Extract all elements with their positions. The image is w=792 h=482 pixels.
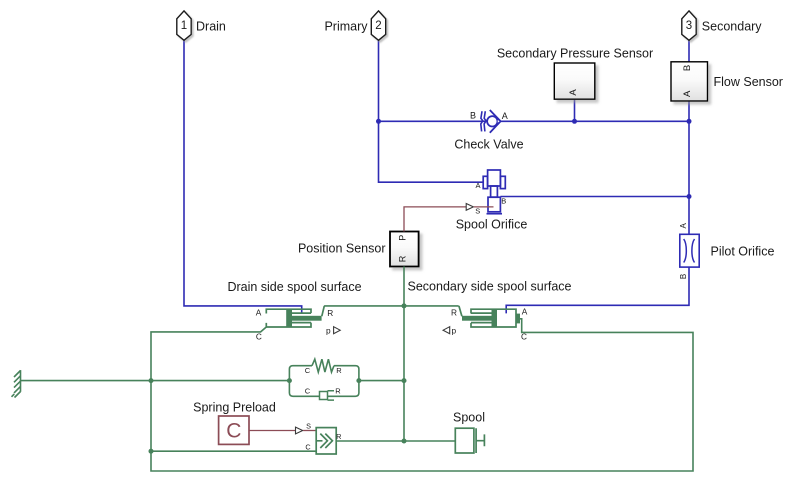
node: Primary branch junction (376, 119, 381, 124)
wire: ground line (green) (21, 380, 290, 382)
svg-text:S: S (475, 207, 480, 216)
secondary cylinder rod link to R (459, 306, 462, 316)
svg-text:Spring Preload: Spring Preload (193, 400, 276, 414)
svg-text:C: C (305, 366, 311, 375)
svg-text:Position Sensor: Position Sensor (298, 241, 386, 255)
block: Pilot Orifice (680, 234, 699, 267)
node: spring-damper right node (356, 378, 361, 383)
svg-text:Secondary: Secondary (702, 19, 763, 33)
wire: flow sensor down to pilot orifice (blue) (688, 101, 690, 234)
wire: R line between cylinders (green) (324, 305, 459, 307)
svg-text:p: p (326, 326, 331, 336)
wire: position sensor P signal (dark red) (404, 207, 466, 232)
wire: big C loop drain cylinder to secondary cylinder (green) (151, 319, 693, 471)
drain cylinder rod link to R (322, 306, 325, 316)
node: spool mass R junction (402, 439, 407, 444)
wire: spring preload signal (dark red) (249, 430, 295, 432)
svg-text:Check Valve: Check Valve (454, 138, 523, 152)
svg-text:C: C (305, 443, 310, 452)
svg-text:R: R (397, 255, 407, 262)
node: spring-damper left node (287, 378, 292, 383)
svg-text:C: C (305, 387, 311, 396)
svg-text:Spool: Spool (453, 411, 485, 425)
wire: PS stub into S port (474, 206, 494, 208)
secondary cylinder A port nub (516, 314, 520, 324)
damper symbol (320, 392, 328, 400)
node: ground line junction left (149, 378, 154, 383)
secondary cylinder p arrow (443, 327, 450, 334)
wire: force source R to spool mass (green) (336, 440, 455, 442)
svg-text:A: A (568, 89, 579, 96)
wire: Primary line (blue) port2 down to Spool Orifice A (379, 40, 484, 182)
block: Position Sensor (390, 232, 419, 267)
ground reference symbol (12, 370, 21, 397)
svg-text:R: R (327, 308, 333, 318)
svg-text:Drain: Drain (196, 19, 226, 33)
svg-text:3: 3 (686, 20, 692, 32)
secondary cylinder piston (492, 309, 498, 327)
drain cylinder piston (286, 309, 292, 327)
wire: force source C line (green) (151, 450, 316, 452)
svg-text:Drain side spool surface: Drain side spool surface (227, 280, 361, 294)
wire: center vertical from position sensor R (green) (403, 267, 405, 442)
wire: check valve line (blue) (379, 120, 690, 122)
block: force source (spring preload force) (316, 428, 336, 454)
block: Spring Preload constant (219, 416, 249, 444)
drain cylinder rod (292, 316, 322, 321)
svg-text:Spool Orifice: Spool Orifice (456, 217, 528, 231)
wire: port3 to flow sensor (blue) (688, 40, 690, 62)
block: Secondary Pressure Sensor (554, 63, 595, 99)
spring-damper assembly (289, 359, 359, 396)
svg-text:Secondary Pressure Sensor: Secondary Pressure Sensor (497, 46, 653, 60)
port 3 Secondary hexagon (682, 11, 696, 40)
port 2 Primary hexagon (371, 11, 385, 40)
node: R-line junction at position sensor (402, 303, 407, 308)
svg-text:C: C (226, 420, 241, 443)
spool orifice symbol (483, 170, 505, 214)
node: Secondary line junction at check valve (687, 119, 692, 124)
svg-text:A: A (475, 181, 480, 190)
svg-text:R: R (335, 387, 341, 396)
svg-text:A: A (256, 308, 262, 318)
svg-text:Secondary side spool surface: Secondary side spool surface (408, 279, 572, 293)
wire: Drain line (blue) port1 to drain cylinder A (184, 40, 302, 313)
PS arrow into force source S (296, 427, 303, 434)
wire: pressure sensor drop (blue) (574, 99, 576, 121)
svg-text:A: A (679, 222, 688, 228)
block: Flow Sensor (671, 62, 708, 101)
svg-text:R: R (451, 308, 457, 318)
svg-text:p: p (451, 326, 456, 336)
svg-text:S: S (306, 421, 311, 430)
svg-text:B: B (501, 197, 506, 206)
wire: PS stub into force source (303, 430, 316, 432)
block: Spool mass (455, 428, 474, 453)
svg-text:R: R (336, 366, 342, 375)
node: Secondary line junction at spool orifice B (687, 194, 692, 199)
svg-text:A: A (522, 307, 528, 317)
svg-text:Primary: Primary (324, 19, 368, 33)
svg-text:C: C (256, 331, 262, 341)
port 1 Drain hexagon (177, 11, 191, 40)
svg-text:P: P (397, 235, 407, 241)
svg-text:B: B (679, 274, 688, 279)
wire: spring loop to center vertical (green) (359, 380, 404, 382)
secondary cylinder rod (462, 316, 492, 321)
svg-text:B: B (682, 65, 693, 71)
svg-text:C: C (521, 331, 527, 341)
secondary side spool surface cylinder (471, 309, 516, 327)
node: pressure sensor tap junction (572, 119, 577, 124)
svg-text:Pilot Orifice: Pilot Orifice (711, 244, 775, 258)
wire: spool orifice B line (blue) (500, 196, 689, 198)
node: spring line junction at center vertical (402, 378, 407, 383)
svg-text:A: A (502, 111, 508, 121)
drain cylinder p arrow (334, 327, 341, 334)
node: force source C junction (149, 449, 154, 454)
svg-text:R: R (336, 432, 341, 441)
PS arrow into spool orifice S (466, 204, 473, 211)
check valve CV symbol (481, 110, 501, 133)
wire: pilot orifice B to secondary cylinder A (blue) (506, 267, 689, 313)
svg-text:2: 2 (375, 20, 381, 32)
drain side spool surface cylinder (266, 309, 311, 327)
svg-text:1: 1 (181, 20, 187, 32)
svg-text:Flow Sensor: Flow Sensor (714, 75, 783, 89)
svg-text:A: A (682, 90, 693, 97)
svg-text:B: B (470, 111, 476, 121)
